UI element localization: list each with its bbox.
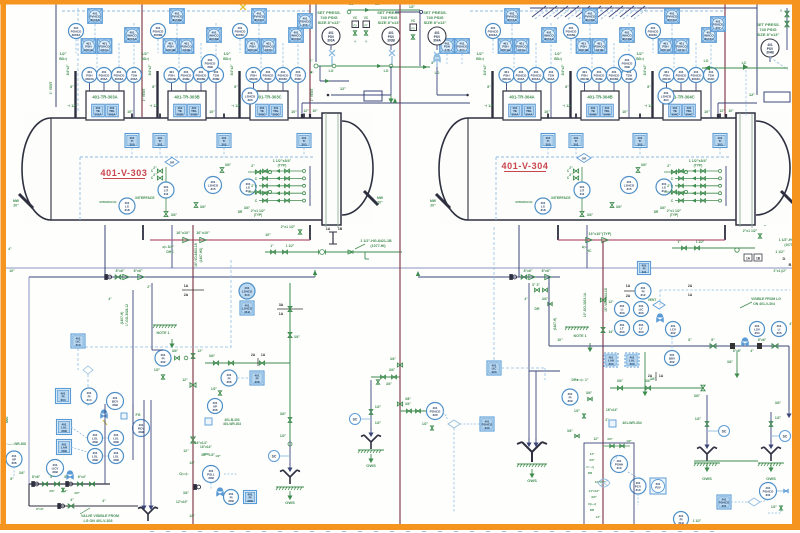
svg-text:BD◁: BD◁ (223, 57, 231, 61)
pi311 sq (638, 262, 651, 275)
svg-text:OWS: OWS (285, 500, 295, 505)
svg-text:401-V-303: 401-V-303 (101, 168, 148, 178)
svg-text:304C: 304C (671, 112, 679, 116)
br dashes (611, 455, 619, 464)
circ BCV (107, 393, 124, 410)
svg-text:3004B: 3004B (610, 77, 620, 81)
dashed LIC chain right (493, 222, 495, 360)
vessel top tag dash V303-3 (303, 148, 305, 158)
svg-text:3004B: 3004B (567, 33, 577, 37)
header 346 P marks (730, 343, 735, 349)
TR inner tag 1 col 04C (669, 104, 682, 117)
svg-text:3/4"x2": 3/4"x2" (483, 64, 487, 75)
tag circle left col 03A (69, 24, 84, 39)
vent line arrow (393, 98, 397, 103)
vessel interior mask 1 (23, 113, 373, 225)
yellow cross (240, 4, 246, 10)
drop lines col 04A (506, 83, 508, 92)
angle valve 303A (329, 50, 335, 66)
svg-text:304: 304 (459, 48, 464, 52)
svg-text:SIZE 8"x13": SIZE 8"x13" (757, 32, 780, 37)
svg-text:310: 310 (616, 466, 621, 470)
svg-text:16"x14": 16"x14" (200, 445, 212, 449)
tag square pairR col 03B (179, 39, 194, 54)
svg-text:304B: 304B (603, 112, 611, 116)
svg-text:8": 8" (647, 85, 651, 89)
svg-text:10": 10" (265, 233, 271, 237)
dashed signal lines col 03C (260, 53, 262, 68)
circ XP306 (6, 451, 22, 467)
extra square 3 (298, 14, 313, 29)
svg-text:B: B (789, 262, 792, 267)
flare drop 707 (706, 395, 708, 442)
blank box right (764, 92, 790, 102)
bdv circle (665, 351, 680, 366)
svg-text:3404C: 3404C (662, 77, 672, 81)
instrument boundary dashed V303 (80, 156, 315, 158)
svg-text:3004C: 3004C (649, 33, 659, 37)
svg-text:DR: DR (238, 210, 243, 214)
extra pair L (440, 39, 455, 54)
svg-text:331: 331 (765, 493, 770, 497)
dashed lic drop (77, 348, 79, 370)
svg-text:LO: LO (329, 69, 334, 73)
svg-text:2": 2" (251, 164, 255, 168)
svg-text:304B: 304B (596, 48, 604, 52)
svg-text:FG: FG (136, 413, 141, 417)
svg-text:1/2": 1/2" (771, 505, 777, 509)
vessel top tag V303-0 (125, 134, 139, 148)
svg-text:DR: DR (654, 210, 659, 214)
svg-text:30B: 30B (208, 476, 214, 480)
svg-text:1A: 1A (184, 284, 189, 288)
svg-text:⊣ 12": ⊣ 12" (231, 104, 241, 108)
pi pair bottom (224, 490, 239, 505)
left rail (55, 4, 57, 107)
tag square right col 03C (289, 28, 304, 43)
svg-text:4": 4" (70, 498, 74, 502)
vessel top tag dash V303-2 (223, 148, 225, 158)
circle row 3 col 04C (689, 68, 704, 83)
tag square right col 03A (125, 28, 140, 43)
svg-text:3/4": 3/4" (74, 491, 80, 495)
PSV outlet 303A (330, 45, 332, 50)
svg-text:4": 4" (524, 297, 528, 301)
dashed vertical 78 (77, 8, 79, 117)
svg-text:VALVE VISIBLE FROM: VALVE VISIBLE FROM (81, 514, 119, 518)
svg-text:303B: 303B (190, 112, 198, 116)
green 375 line (371, 376, 400, 378)
drop lines col 03B (171, 83, 173, 92)
right rail (756, 4, 758, 95)
svg-text:10": 10" (728, 109, 734, 113)
circ LSL1 (88, 431, 103, 446)
lsv pair (750, 322, 765, 337)
svg-text:303: 303 (301, 142, 306, 146)
svg-text:304A: 304A (547, 77, 555, 81)
svg-text:12"x(0": 12"x(0" (595, 480, 606, 484)
svg-text:8"x6": 8"x6" (542, 269, 551, 273)
svg-text:3003C: 3003C (255, 18, 265, 22)
svg-text:12": 12" (303, 109, 309, 113)
svg-text:14": 14" (189, 461, 195, 465)
nozzle line col 04C (651, 71, 653, 118)
svg-text:10": 10" (544, 110, 550, 114)
svg-text:313: 313 (244, 293, 249, 297)
svg-text:1 1/2": 1 1/2" (775, 250, 785, 254)
outlet blue B (586, 222, 588, 268)
svg-text:16"-VD-8403-1B: 16"-VD-8403-1B (194, 242, 198, 267)
svg-text:307: 307 (715, 26, 720, 30)
svg-text:3/4": 3/4" (660, 206, 667, 210)
vessel 401-V-304 (439, 113, 790, 228)
svg-text:401-TR-304B: 401-TR-304B (587, 95, 612, 100)
svg-text:1A: 1A (688, 293, 693, 297)
TR inner tag 2 col 04B (601, 104, 614, 117)
svg-text:30B: 30B (52, 470, 58, 474)
svg-text:1A: 1A (746, 257, 751, 261)
svg-text:1A: 1A (326, 227, 331, 231)
svg-text:8"x6": 8"x6" (36, 507, 44, 511)
horizontal limit line (6, 267, 792, 269)
maroon valves left (190, 383, 196, 388)
svg-text:3/4": 3/4" (727, 360, 733, 364)
flare 371 (369, 428, 373, 436)
svg-text:⊥: ⊥ (365, 39, 368, 43)
outlet thick A (142, 220, 144, 240)
relief valve 304B (761, 39, 779, 57)
svg-text:12": 12" (182, 378, 188, 382)
svg-text:1/2": 1/2" (280, 434, 287, 438)
circle row 4 col 03B (209, 68, 224, 83)
svg-text:12": 12" (593, 437, 599, 441)
svg-text:3403C: 3403C (248, 48, 258, 52)
cv 219 (217, 488, 224, 496)
svg-text:3/4": 3/4" (294, 335, 300, 339)
svg-text:1" VENT: 1" VENT (49, 82, 53, 95)
TR inner tag 1 col 03A (92, 104, 105, 117)
nozzle line col 03B (156, 71, 158, 118)
svg-text:3003B: 3003B (197, 77, 207, 81)
level gauge LG2 V304 (656, 179, 672, 195)
svg-text:12": 12" (749, 93, 755, 97)
pink reducers A (183, 237, 189, 242)
svg-text:1 1/2"-HG-8421-1B: 1 1/2"-HG-8421-1B (360, 239, 392, 243)
svg-text:LO: LO (704, 59, 709, 63)
svg-text:303C: 303C (258, 112, 266, 116)
header 277 right (418, 276, 560, 278)
svg-text:8": 8" (565, 85, 569, 89)
circle row 3 col 03B (194, 68, 209, 83)
svg-text:311: 311 (164, 192, 169, 196)
tag square top col 04C (665, 9, 680, 24)
svg-text:16"x14": 16"x14" (606, 408, 618, 412)
svg-text:1A: 1A (626, 284, 631, 288)
flare connect green (694, 460, 758, 462)
svg-text:6"x4": 6"x4" (78, 475, 87, 479)
vent bowties V304 (636, 168, 640, 173)
drop lines col 04C (666, 83, 668, 92)
svg-text:303C: 303C (264, 77, 272, 81)
svg-text:1 1/2": 1 1/2" (286, 244, 295, 248)
svg-text:(TYP): (TYP) (254, 213, 262, 217)
circle row 2 col 04C (674, 68, 689, 83)
svg-text:3404B: 3404B (580, 77, 590, 81)
vessel top nozzle V304-3 (719, 114, 721, 119)
svg-text:INTERFACE: INTERFACE (99, 200, 116, 204)
svg-text:3/4": 3/4" (567, 429, 573, 433)
vessel top tag dash V304-2 (639, 148, 641, 158)
svg-text:304B: 304B (589, 112, 597, 116)
svg-text:3403A: 3403A (84, 48, 94, 52)
svg-text:VC: VC (353, 16, 358, 20)
pi302 stem (151, 283, 153, 350)
svg-text:3/4": 3/4" (19, 471, 25, 475)
pshco330 sq (480, 417, 494, 431)
svg-text:318: 318 (540, 208, 545, 212)
header 277 left items (105, 275, 112, 280)
TR inner tag 2 col 03A (106, 104, 119, 117)
vessel top tag V303-1 (153, 134, 167, 148)
svg-text:8": 8" (234, 85, 238, 89)
br pshco331 wiring (731, 501, 748, 503)
thermowell box 401-TR-304C (663, 91, 701, 120)
level transmitter LIT V303 (158, 182, 174, 198)
svg-text:304B: 304B (766, 50, 774, 54)
svg-text:8": 8" (70, 85, 74, 89)
tag square pairL col 03C (245, 39, 260, 54)
maroon between-vessel riser (399, 4, 401, 524)
tag square top col 03B (170, 9, 185, 24)
svg-text:(1077-HI): (1077-HI) (370, 244, 386, 248)
svg-text:1 1/2"x3/4": 1 1/2"x3/4" (689, 159, 708, 163)
circle row 4 col 04B (622, 68, 637, 83)
vessel top tag dash V304-3 (719, 148, 721, 158)
svg-text:SC: SC (722, 429, 727, 433)
sq PI304 (56, 389, 71, 404)
vent line y103 right (718, 102, 757, 104)
svg-text:3/4"x2": 3/4"x2" (66, 64, 70, 75)
br pump (598, 479, 610, 487)
svg-text:303: 303 (629, 362, 634, 366)
svg-text:312: 312 (640, 293, 645, 297)
svg-text:3/4": 3/4" (607, 437, 613, 441)
sc 371 (350, 414, 361, 425)
svg-text:2": 2" (147, 285, 151, 289)
circ LICV (47, 460, 64, 477)
svg-text:3/4": 3/4" (694, 394, 701, 398)
svg-text:315: 315 (210, 187, 215, 191)
svg-text:2A: 2A (648, 374, 653, 378)
circle row 3 col 04B (607, 68, 622, 83)
svg-text:1A: 1A (279, 312, 284, 316)
bl items (32, 482, 39, 487)
svg-text:3/4": 3/4" (589, 458, 595, 462)
svg-text:1/2": 1/2" (59, 52, 66, 56)
svg-text:⊣ 12": ⊣ 12" (484, 104, 494, 108)
svg-text:3004A: 3004A (489, 33, 499, 37)
sq LAL (57, 420, 72, 435)
svg-text:8": 8" (688, 338, 692, 342)
bl 505 line (28, 484, 30, 506)
svg-text:DR: DR (535, 307, 540, 311)
tag square pairL col 04A (498, 39, 513, 54)
lcv valve (657, 314, 664, 322)
br pshco331 sq (717, 495, 731, 509)
svg-text:SIZE 8"x13": SIZE 8"x13" (318, 20, 341, 25)
svg-text:MW: MW (430, 199, 437, 203)
vessel 401-V-303 (22, 113, 373, 228)
svg-text:1/2": 1/2" (375, 405, 382, 409)
svg-text:303: 303 (247, 98, 252, 102)
TR inner tag 2 col 03B (188, 104, 201, 117)
svg-text:HC: HC (587, 249, 592, 253)
level transmitter LIT V304 (574, 182, 590, 198)
circle row 4 col 04C (704, 68, 719, 83)
svg-text:304C: 304C (707, 77, 715, 81)
svg-text:330: 330 (432, 413, 437, 417)
svg-text:3004C: 3004C (692, 77, 702, 81)
svg-text:○—○-WR-308: ○—○-WR-308 (6, 442, 26, 446)
spec break B (744, 254, 752, 261)
maroon riser A (141, 4, 143, 117)
svg-text:10": 10" (622, 110, 628, 114)
svg-text:⊥: ⊥ (354, 39, 357, 43)
svg-text:SIZE 8"x13": SIZE 8"x13" (424, 20, 447, 25)
magenta riser B (309, 4, 311, 117)
svg-text:401-TR-304A: 401-TR-304A (509, 95, 534, 100)
circle row 2 col 03C (261, 68, 276, 83)
svg-text:2": 2" (153, 173, 157, 177)
outlet thick B (557, 220, 559, 240)
svg-text:3003A: 3003A (91, 18, 101, 22)
relief valve 303A (322, 27, 340, 45)
tag square right col 04B (620, 28, 635, 43)
svg-text:2": 2" (569, 173, 573, 177)
svg-text:1/2": 1/2" (409, 5, 415, 9)
svg-text:401-WR-303: 401-WR-303 (223, 422, 241, 426)
svg-text:LC: LC (742, 61, 747, 65)
svg-text:14": 14" (608, 330, 614, 334)
svg-text:3/4"x2": 3/4"x2" (561, 64, 565, 75)
relief valve 303B (382, 27, 400, 45)
svg-text:(TYP): (TYP) (694, 164, 703, 168)
svg-text:303B: 303B (183, 48, 191, 52)
svg-text:300: 300 (129, 142, 134, 146)
dashes right cluster (660, 289, 790, 291)
br box (584, 443, 634, 525)
psv right dashes (770, 57, 788, 70)
circ LSL4 (109, 449, 124, 464)
note1 hatch right (565, 326, 589, 328)
bd line B (724, 224, 726, 240)
flare drop 290 (289, 440, 291, 464)
svg-text:16"x10": 16"x10" (176, 231, 190, 235)
svg-text:1 1/2": 1 1/2" (696, 240, 705, 244)
svg-text:1/2": 1/2" (422, 422, 428, 426)
circ PI314 (81, 388, 97, 404)
vent header solid (530, 7, 757, 9)
svg-text:1A: 1A (659, 374, 664, 378)
svg-text:10": 10" (291, 110, 297, 114)
svg-text:3/4": 3/4" (390, 357, 396, 361)
svg-text:SC: SC (272, 454, 277, 458)
br pshh (611, 456, 628, 473)
vessel top nozzle V303-1 (159, 114, 161, 119)
left riser L (28, 277, 30, 484)
right rail2 (786, 8, 788, 50)
svg-text:304A: 304A (518, 48, 526, 52)
svg-text:12": 12" (183, 449, 189, 453)
svg-text:304A: 304A (517, 77, 525, 81)
tag circle left col 04A (486, 24, 501, 39)
svg-text:DHC: DHC (166, 250, 174, 254)
svg-text:1/2": 1/2" (636, 52, 643, 56)
level switch LSHCO V304 (621, 177, 638, 194)
pink header B (558, 239, 725, 241)
304A cv (434, 54, 441, 62)
flare 771 (769, 440, 773, 448)
svg-text:3/4": 3/4" (542, 297, 549, 301)
svg-text:MW: MW (13, 199, 20, 203)
gauge valves tree V304 (581, 167, 583, 182)
svg-text:3/4": 3/4" (244, 206, 251, 210)
header crossover (532, 6, 546, 17)
svg-text:3/4": 3/4" (203, 452, 209, 456)
vent nozzle ticks right (717, 114, 719, 118)
dashed signal lines col 03A (96, 53, 98, 68)
pi circle cluster (635, 283, 651, 299)
svg-text:2": 2" (569, 166, 573, 170)
vessel top tag dash V303-1 (159, 148, 161, 158)
level gauge LG V304 (535, 198, 551, 214)
tag square right col 03B (207, 28, 222, 43)
outlet drop 4in B (518, 220, 520, 277)
TR inner tag 2 col 04C (683, 104, 696, 117)
svg-text:303A: 303A (130, 77, 138, 81)
svg-text:309: 309 (567, 399, 572, 403)
svg-text:3": 3" (309, 59, 313, 63)
circle row 2 col 03B (179, 68, 194, 83)
svg-text:3/4": 3/4" (389, 368, 396, 372)
svg-text:●▷ 3/4": ●▷ 3/4" (162, 245, 174, 249)
svg-text:3003A: 3003A (72, 33, 82, 37)
instrument boundary dashed V304 (496, 156, 731, 158)
circle row 4 col 03C (291, 68, 306, 83)
svg-text:304: 304 (754, 331, 759, 335)
flare left (138, 507, 158, 521)
go line (132, 290, 134, 430)
svg-text:1": 1" (677, 240, 681, 244)
svg-text:301: 301 (157, 142, 162, 146)
svg-text:INTERFACE: INTERFACE (515, 200, 532, 204)
svg-text:3/4"x2": 3/4"x2" (643, 64, 647, 75)
level gauge LG2 V303 (240, 179, 256, 195)
svg-text:1/2": 1/2" (141, 52, 148, 56)
cv licv (67, 471, 74, 479)
green line 363 (205, 362, 290, 364)
tag square top col 03C (252, 9, 267, 24)
bl corner right (633, 524, 635, 526)
svg-text:10": 10" (209, 110, 215, 114)
svg-text:BD◁: BD◁ (476, 57, 484, 61)
svg-text:1" VENT: 1" VENT (142, 89, 146, 102)
svg-text:302: 302 (637, 142, 642, 146)
svg-text:3003B: 3003B (154, 33, 164, 37)
svg-text:33B: 33B (113, 440, 119, 444)
svg-text:31B: 31B (244, 310, 250, 314)
dashed LIC chain (230, 260, 232, 348)
